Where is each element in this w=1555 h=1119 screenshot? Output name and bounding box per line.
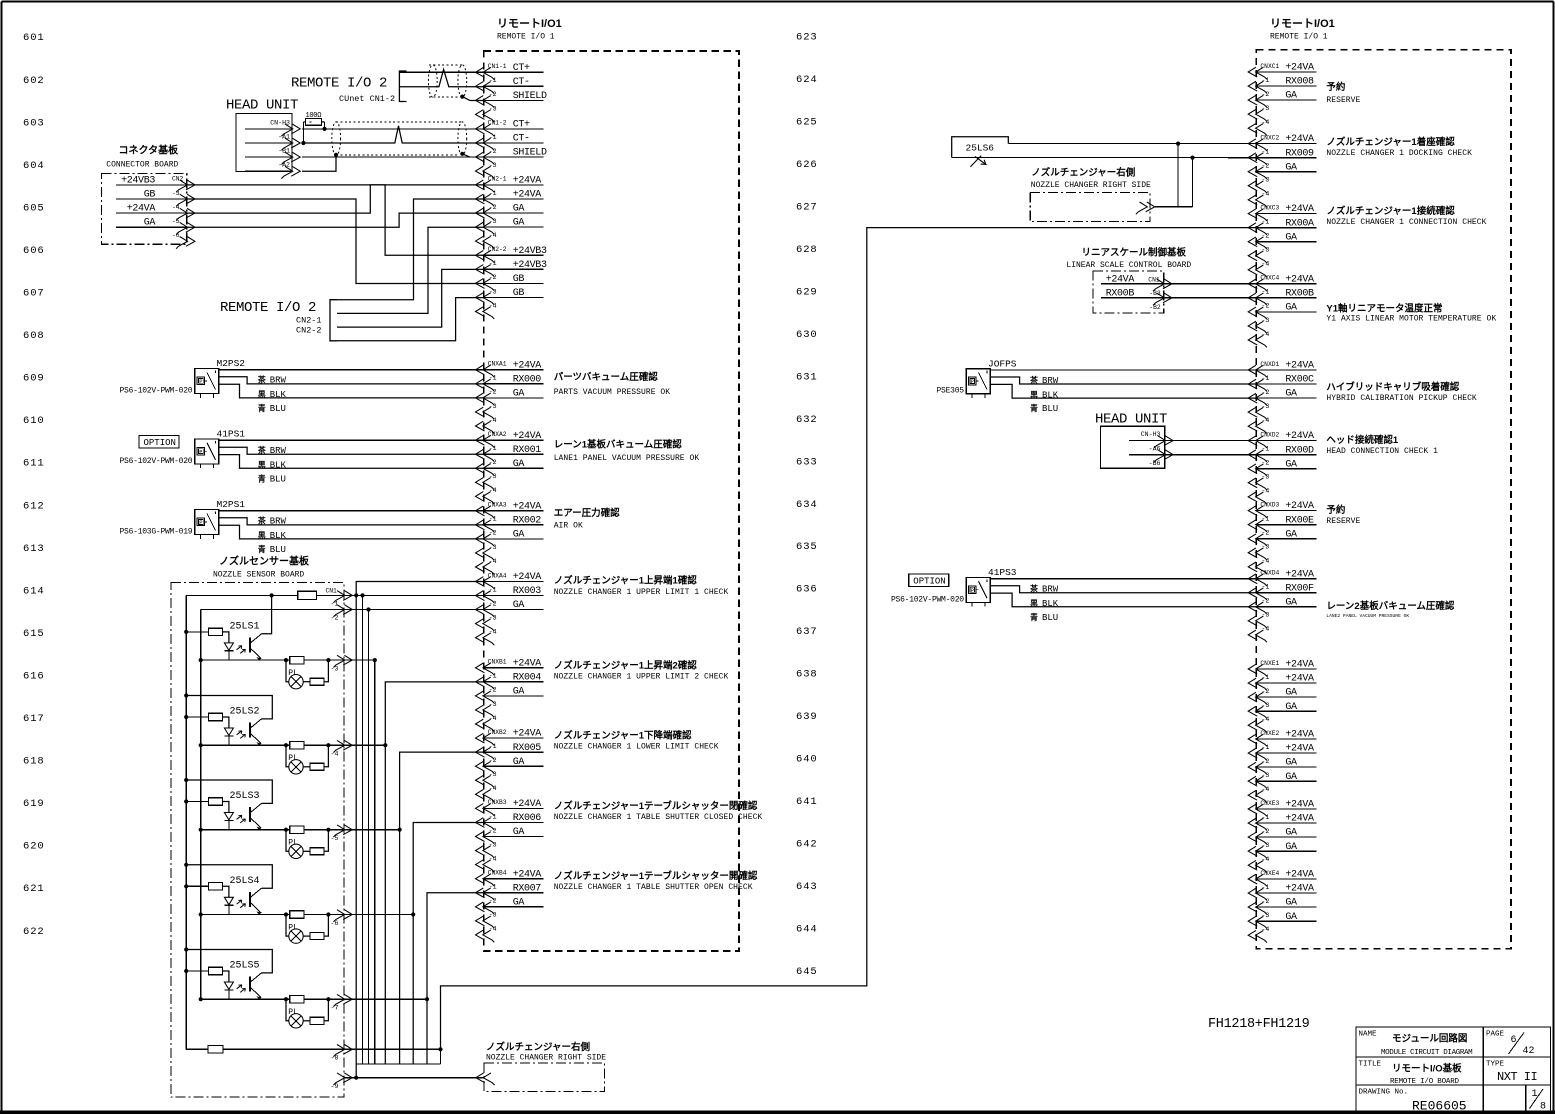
svg-text:NOZZLE SENSOR BOARD: NOZZLE SENSOR BOARD	[213, 571, 304, 580]
svg-text:-2: -2	[1261, 758, 1269, 765]
phototransistor 25LS1	[249, 638, 251, 653]
svg-text:606: 606	[23, 245, 45, 257]
svg-text:CNXB3: CNXB3	[488, 799, 507, 806]
svg-text:+24VA: +24VA	[1285, 361, 1314, 372]
svg-text:BRW: BRW	[1042, 376, 1059, 386]
bracket REMOTE I/O 2 (CN2-1 CN2-2)	[330, 300, 337, 341]
wire -9 to nozzle changer right side	[344, 1077, 484, 1079]
svg-text:PS6-102V-PWM-020: PS6-102V-PWM-020	[891, 595, 964, 604]
svg-text:-2: -2	[1261, 828, 1269, 835]
svg-text:635: 635	[796, 541, 818, 553]
resistor series 25LS2	[290, 742, 304, 749]
svg-text:-B6: -B6	[1149, 460, 1161, 467]
wire linear scale RX00B	[1164, 297, 1257, 299]
svg-text:-1: -1	[1261, 77, 1269, 84]
svg-text:BRW: BRW	[270, 376, 287, 386]
svg-text:LINEAR SCALE CONTROL BOARD: LINEAR SCALE CONTROL BOARD	[1066, 261, 1191, 270]
svg-text:-2: -2	[1261, 688, 1269, 695]
svg-text:BLK: BLK	[270, 531, 287, 541]
svg-text:+24VA: +24VA	[513, 572, 542, 583]
connector CNXD2	[1248, 431, 1316, 504]
svg-text:REMOTE I/O 1: REMOTE I/O 1	[1270, 33, 1328, 42]
svg-text:RX004: RX004	[513, 672, 542, 683]
svg-text:GA: GA	[1285, 459, 1297, 470]
svg-text:621: 621	[23, 883, 45, 895]
svg-text:-2: -2	[331, 614, 339, 621]
svg-text:BLK: BLK	[270, 390, 287, 400]
svg-text:モジュール回路図: モジュール回路図	[1392, 1033, 1467, 1045]
svg-text:リニアスケール制御基板: リニアスケール制御基板	[1082, 247, 1187, 259]
svg-text:CNXC2: CNXC2	[1260, 134, 1279, 141]
svg-text:-1: -1	[1261, 744, 1269, 751]
resistor input 25LS2	[184, 715, 188, 719]
connector CNXD3	[1248, 501, 1316, 574]
svg-text:RE06605: RE06605	[1412, 1099, 1467, 1114]
border frame	[2, 0, 1554, 2]
svg-text:RX005: RX005	[513, 743, 542, 754]
connector CNXA4	[476, 572, 544, 645]
svg-text:+24VA: +24VA	[513, 501, 542, 512]
light arrows 25LS3	[237, 815, 246, 823]
svg-text:-4: -4	[1261, 119, 1269, 126]
wire bracket to CN2-1 pin1	[337, 199, 484, 300]
wire sensor BRW to RX	[219, 447, 484, 454]
svg-text:ハイブリッドキャリブ吸着確認: ハイブリッドキャリブ吸着確認	[1326, 381, 1459, 393]
svg-text:CNXB1: CNXB1	[488, 659, 507, 666]
remote I/O 1 board box (left)	[484, 51, 739, 951]
svg-text:NOZZLE CHANGER 1 CONNECTION CH: NOZZLE CHANGER 1 CONNECTION CHECK	[1326, 218, 1486, 227]
svg-text:-4: -4	[489, 232, 497, 239]
svg-text:-1: -1	[1261, 674, 1269, 681]
svg-text:CNXA4: CNXA4	[488, 572, 507, 579]
svg-text:NOZZLE CHANGER 1 LOWER LIMIT C: NOZZLE CHANGER 1 LOWER LIMIT CHECK	[554, 742, 719, 751]
svg-text:GA: GA	[513, 897, 525, 908]
svg-text:CNXE3: CNXE3	[1260, 800, 1279, 807]
svg-text:GA: GA	[1285, 702, 1297, 713]
svg-text:NXT II: NXT II	[1497, 1070, 1537, 1084]
svg-text:GA: GA	[1285, 232, 1297, 243]
svg-text:GA: GA	[1285, 772, 1297, 783]
svg-text:-1: -1	[1261, 375, 1269, 382]
svg-text:REMOTE I/O 1: REMOTE I/O 1	[497, 33, 555, 42]
nozzle changer right side box (bottom)	[484, 1063, 605, 1092]
svg-text:RX00A: RX00A	[1285, 218, 1314, 229]
LED 25LS5	[224, 982, 233, 989]
svg-text:ヘッド接続確認1: ヘッド接続確認1	[1326, 434, 1399, 446]
svg-text:25LS3: 25LS3	[230, 791, 260, 802]
svg-text:+24VA: +24VA	[513, 360, 542, 371]
connector CNXC4	[1248, 274, 1316, 347]
svg-text:予約: 予約	[1326, 81, 1346, 93]
svg-text:+24VA: +24VA	[1285, 660, 1314, 671]
svg-text:CT+: CT+	[513, 120, 530, 131]
svg-text:-2: -2	[489, 827, 497, 834]
svg-text:RX001: RX001	[513, 445, 542, 456]
svg-text:-1: -1	[1261, 445, 1269, 452]
svg-text:GA: GA	[513, 530, 525, 541]
svg-text:-2: -2	[489, 459, 497, 466]
connector CNXA3	[476, 501, 544, 574]
svg-text:PARTS VACUUM PRESSURE OK: PARTS VACUUM PRESSURE OK	[554, 388, 671, 397]
svg-text:GA: GA	[1285, 828, 1297, 839]
svg-text:BLK: BLK	[270, 461, 287, 471]
svg-text:GA: GA	[1285, 389, 1297, 400]
svg-text:-3: -3	[1261, 317, 1269, 324]
svg-text:BLU: BLU	[270, 545, 286, 555]
pressure sensor M2PS1	[119, 499, 483, 555]
light arrows 25LS2	[237, 731, 246, 739]
pin -8 sensor board	[186, 1048, 344, 1050]
svg-text:HEAD CONNECTION CHECK 1: HEAD CONNECTION CHECK 1	[1326, 447, 1438, 456]
svg-text:-3: -3	[1261, 177, 1269, 184]
svg-text:41PS1: 41PS1	[217, 429, 246, 440]
svg-text:GA: GA	[1285, 303, 1297, 314]
svg-text:CT+: CT+	[513, 63, 530, 74]
svg-text:-2: -2	[1261, 460, 1269, 467]
svg-text:青: 青	[258, 544, 266, 554]
svg-text:CNXE2: CNXE2	[1260, 730, 1279, 737]
svg-text:-3: -3	[1261, 912, 1269, 919]
svg-text:-2: -2	[489, 757, 497, 764]
svg-text:MODULE CIRCUIT DIAGRAM: MODULE CIRCUIT DIAGRAM	[1381, 1049, 1473, 1057]
svg-text:628: 628	[796, 244, 818, 256]
svg-text:-1: -1	[489, 516, 497, 523]
connector CNXB4	[476, 869, 544, 942]
svg-text:GA: GA	[1285, 758, 1297, 769]
svg-text:HYBRID CALIBRATION PICKUP CHEC: HYBRID CALIBRATION PICKUP CHECK	[1326, 394, 1477, 403]
svg-text:-2: -2	[489, 148, 497, 155]
svg-text:M2PS2: M2PS2	[217, 358, 246, 369]
remote I/O 1 board box (right)	[1256, 50, 1511, 949]
svg-text:+24VA: +24VA	[513, 176, 542, 187]
svg-text:HEAD UNIT: HEAD UNIT	[1095, 412, 1167, 428]
connector CNXD4	[1248, 569, 1316, 642]
lamp PL 25LS3	[286, 830, 289, 852]
svg-text:CN2-1: CN2-1	[296, 315, 322, 325]
svg-text:BLK: BLK	[1042, 599, 1059, 609]
svg-text:予約: 予約	[1326, 504, 1346, 516]
svg-text:RESERVE: RESERVE	[1326, 96, 1360, 105]
svg-text:CNXA1: CNXA1	[488, 361, 507, 368]
wire sensor BLK to GA	[219, 455, 484, 469]
resistor input 25LS1	[184, 630, 188, 634]
row numbers left 601-622	[23, 32, 45, 938]
svg-text:茶: 茶	[1029, 375, 1039, 385]
svg-text:Y1軸リニアモータ温度正常: Y1軸リニアモータ温度正常	[1326, 303, 1442, 315]
svg-text:NOZZLE CHANGER 1 TABLE SHUTTER: NOZZLE CHANGER 1 TABLE SHUTTER OPEN CHEC…	[554, 883, 753, 892]
svg-text:-3: -3	[1261, 842, 1269, 849]
svg-text:P: P	[199, 379, 202, 385]
wire +24V rail (rail1)	[185, 595, 187, 1049]
svg-text:GA: GA	[513, 459, 525, 470]
svg-text:-1: -1	[489, 884, 497, 891]
opto sensor 25LS1	[184, 593, 352, 689]
title block	[1356, 1027, 1551, 1112]
svg-text:603: 603	[23, 117, 45, 129]
svg-text:614: 614	[23, 585, 45, 597]
svg-text:622: 622	[23, 926, 45, 938]
connector CN2-2	[476, 246, 547, 319]
svg-text:-4: -4	[489, 487, 497, 494]
wire sensor BRW to RX	[990, 586, 1256, 593]
svg-text:639: 639	[796, 711, 818, 723]
bracket REMOTE I/O 2 (CUnet CN1-2)	[399, 71, 406, 102]
svg-text:-4: -4	[489, 629, 497, 636]
svg-text:-3: -3	[1261, 702, 1269, 709]
svg-text:RX009: RX009	[1285, 148, 1314, 159]
svg-text:黒: 黒	[1030, 598, 1038, 608]
svg-text:レーン1基板バキューム圧確認: レーン1基板バキューム圧確認	[554, 439, 683, 451]
svg-text:42: 42	[1523, 1046, 1535, 1057]
wire RX003 line	[344, 594, 484, 596]
wire RX007 to -7 (bus v8)	[427, 893, 484, 1064]
svg-text:CONNECTOR BOARD: CONNECTOR BOARD	[106, 161, 178, 170]
node shield junction (CN1-2)	[460, 152, 464, 156]
svg-text:-1: -1	[1261, 884, 1269, 891]
svg-text:604: 604	[23, 160, 45, 172]
svg-text:-3: -3	[489, 614, 497, 621]
wire CT- (CN1-1) with twist hump	[399, 69, 483, 86]
connector CNXA1	[476, 360, 544, 433]
svg-text:-4: -4	[489, 785, 497, 792]
svg-text:-3: -3	[1261, 105, 1269, 112]
wire -8 riser to RX00A	[441, 228, 1257, 1050]
svg-text:レーン2基板バキューム圧確認: レーン2基板バキューム圧確認	[1326, 600, 1455, 612]
wire -B1 to SHIELD (CN1-2)	[302, 156, 484, 158]
svg-text:-4: -4	[1261, 331, 1269, 338]
svg-text:ノズルチェンジャー右側: ノズルチェンジャー右側	[486, 1041, 591, 1053]
svg-text:REMOTE I/O 2: REMOTE I/O 2	[291, 76, 387, 92]
svg-text:627: 627	[796, 202, 818, 214]
svg-text:青: 青	[258, 473, 266, 483]
svg-text:-3: -3	[489, 771, 497, 778]
resistor on CN1 line	[298, 591, 317, 599]
svg-text:-2: -2	[489, 91, 497, 98]
connector CNXE2	[1248, 730, 1316, 803]
svg-text:41PS3: 41PS3	[988, 567, 1017, 578]
wire sensor +24VA	[990, 369, 1256, 371]
svg-text:-3: -3	[1261, 403, 1269, 410]
svg-text:-5: -5	[172, 218, 180, 225]
wire output 25LS4	[199, 912, 203, 916]
opto sensor 25LS3	[184, 778, 352, 859]
svg-text:GA: GA	[513, 204, 525, 215]
svg-text:PL: PL	[288, 923, 298, 932]
svg-text:-2: -2	[489, 204, 497, 211]
wire output 25LS3	[199, 828, 203, 832]
svg-text:リモートI/O1: リモートI/O1	[1270, 17, 1335, 30]
svg-text:PL: PL	[288, 669, 298, 678]
svg-text:ノズルセンサー基板: ノズルセンサー基板	[219, 555, 310, 568]
svg-text:-2: -2	[1261, 598, 1269, 605]
resistor series 25LS3	[290, 826, 304, 833]
bus v3	[368, 610, 370, 1065]
svg-text:ノズルチェンジャー右側: ノズルチェンジャー右側	[1031, 167, 1136, 179]
svg-text:茶: 茶	[257, 516, 267, 526]
limit switch 25LS6	[952, 137, 1009, 158]
svg-text:CN2-2: CN2-2	[488, 246, 507, 253]
svg-text:-3: -3	[489, 403, 497, 410]
svg-text:-1: -1	[331, 600, 339, 607]
svg-text:青: 青	[1030, 612, 1038, 622]
svg-text:637: 637	[796, 626, 818, 638]
svg-text:-4: -4	[489, 558, 497, 565]
svg-text:-1: -1	[489, 673, 497, 680]
node shield junction (CN1-1)	[460, 95, 464, 99]
wire resistor left lead to CT-	[302, 122, 304, 143]
svg-text:CNXD4: CNXD4	[1260, 570, 1279, 577]
svg-text:+24VA: +24VA	[1285, 63, 1314, 74]
svg-text:643: 643	[796, 881, 818, 893]
svg-text:-1: -1	[489, 445, 497, 452]
svg-text:青: 青	[1030, 403, 1038, 413]
svg-text:626: 626	[796, 159, 818, 171]
wire -A1 to CT- (CN1-2) with twist hump	[302, 126, 484, 143]
resistor series 25LS5	[290, 996, 304, 1003]
svg-text:NOZZLE CHANGER 1 UPPER LIMIT 2: NOZZLE CHANGER 1 UPPER LIMIT 2 CHECK	[554, 673, 729, 682]
svg-text:-3: -3	[489, 912, 497, 919]
svg-text:ノズルチェンジャー1下降端確認: ノズルチェンジャー1下降端確認	[554, 729, 692, 741]
wire GB to CN2-2 pin2	[187, 199, 484, 284]
svg-text:608: 608	[23, 330, 45, 342]
svg-text:CN1-2: CN1-2	[488, 120, 507, 127]
svg-text:613: 613	[23, 543, 45, 555]
lamp PL 25LS5	[286, 999, 289, 1021]
svg-text:-2: -2	[489, 274, 497, 281]
svg-text:615: 615	[23, 628, 45, 640]
svg-text:630: 630	[796, 329, 818, 341]
svg-text:RX00C: RX00C	[1285, 375, 1314, 386]
connector CNXC3	[1248, 204, 1316, 277]
svg-text:-2: -2	[1261, 389, 1269, 396]
svg-text:NAME: NAME	[1359, 1031, 1378, 1039]
svg-text:+24VA: +24VA	[1285, 204, 1314, 215]
svg-text:640: 640	[796, 754, 818, 766]
wire +24VA to CN2-1 pin0	[187, 185, 484, 213]
svg-text:633: 633	[796, 456, 818, 468]
svg-text:NOZZLE CHANGER RIGHT SIDE: NOZZLE CHANGER RIGHT SIDE	[486, 1054, 606, 1063]
wire CT+ (CN1-1)	[399, 71, 483, 73]
svg-text:629: 629	[796, 286, 818, 298]
connector CN1-1	[476, 63, 547, 122]
svg-text:618: 618	[23, 756, 45, 768]
svg-text:611: 611	[23, 458, 45, 470]
svg-text:REMOTE I/O BOARD: REMOTE I/O BOARD	[1390, 1078, 1460, 1086]
svg-text:-3: -3	[489, 841, 497, 848]
resistor input 25LS3	[184, 799, 188, 803]
wire sensor +24VA	[219, 439, 484, 441]
svg-text:-1: -1	[1261, 218, 1269, 225]
svg-text:GB: GB	[513, 274, 525, 285]
svg-text:25LS2: 25LS2	[230, 707, 260, 718]
svg-text:RX00E: RX00E	[1285, 515, 1314, 526]
svg-text:ノズルチェンジャー1着座確認: ノズルチェンジャー1着座確認	[1326, 136, 1455, 148]
svg-text:リモートI/O1: リモートI/O1	[497, 17, 562, 30]
wire RX006 to -6 (bus v7)	[413, 822, 484, 1064]
nozzle sensor board box	[171, 582, 344, 1097]
wire to NC right side (v pair)	[1177, 144, 1179, 207]
light arrows 25LS1	[237, 646, 246, 654]
svg-text:ノズルチェンジャー1上昇端2確認: ノズルチェンジャー1上昇端2確認	[554, 659, 698, 671]
svg-text:-4: -4	[1261, 488, 1269, 495]
connector CNXA2	[476, 431, 544, 504]
svg-text:620: 620	[23, 841, 45, 853]
svg-text:ノズルチェンジャー1テーブルシャッター開確認: ノズルチェンジャー1テーブルシャッター開確認	[554, 870, 758, 882]
svg-text:+24VA: +24VA	[1285, 431, 1314, 442]
svg-text:CNXB2: CNXB2	[488, 729, 507, 736]
resistor series 25LS1	[290, 656, 304, 663]
svg-text:-3: -3	[1261, 247, 1269, 254]
svg-text:CUnet CN1-2: CUnet CN1-2	[339, 94, 395, 104]
svg-text:624: 624	[796, 74, 818, 86]
svg-text:25LS1: 25LS1	[230, 622, 260, 633]
svg-text:CN2-1: CN2-1	[488, 176, 507, 183]
connector board box	[102, 173, 187, 244]
opto sensor 25LS2	[184, 693, 352, 774]
svg-text:-2: -2	[1261, 303, 1269, 310]
svg-text:-2: -2	[1261, 163, 1269, 170]
svg-text:GA: GA	[513, 687, 525, 698]
svg-text:-2: -2	[489, 898, 497, 905]
svg-text:RX00B: RX00B	[1285, 288, 1314, 299]
svg-text:OPTION: OPTION	[144, 438, 176, 448]
svg-text:GA: GA	[1285, 529, 1297, 540]
svg-text:P: P	[199, 520, 202, 526]
svg-text:-1: -1	[489, 190, 497, 197]
svg-text:25LS5: 25LS5	[230, 961, 260, 972]
svg-text:ノズルチェンジャー1テーブルシャッター閉確認: ノズルチェンジャー1テーブルシャッター閉確認	[554, 800, 758, 812]
svg-text:610: 610	[23, 415, 45, 427]
svg-text:-3: -3	[1261, 474, 1269, 481]
svg-text:-B1: -B1	[278, 148, 290, 155]
phototransistor 25LS3	[249, 807, 251, 822]
svg-text:CNXC4: CNXC4	[1260, 275, 1279, 282]
svg-text:-3: -3	[172, 190, 180, 197]
svg-text:GA: GA	[513, 218, 525, 229]
wire -8 to RX00A riser	[344, 1048, 441, 1050]
resistor series 25LS4	[290, 911, 304, 918]
wire sensor +24VA	[990, 578, 1256, 580]
svg-text:-4: -4	[1261, 191, 1269, 198]
svg-text:RX00F: RX00F	[1285, 583, 1314, 594]
svg-text:GA: GA	[1285, 688, 1297, 699]
svg-text:CN1-1: CN1-1	[488, 63, 507, 70]
svg-text:645: 645	[796, 966, 818, 978]
svg-text:8: 8	[1540, 1102, 1546, 1113]
svg-text:NOZZLE CHANGER 1 TABLE SHUTTER: NOZZLE CHANGER 1 TABLE SHUTTER CLOSED CH…	[554, 813, 763, 822]
svg-text:RX000: RX000	[513, 374, 542, 385]
svg-text:+24VA: +24VA	[1285, 134, 1314, 145]
svg-text:黒: 黒	[258, 460, 266, 470]
svg-text:GA: GA	[513, 757, 525, 768]
wire shield to SHIELD pin (CN1-1)	[462, 97, 483, 101]
svg-text:CNXC1: CNXC1	[1260, 63, 1279, 70]
opto sensor 25LS4	[184, 863, 352, 944]
svg-text:NOZZLE CHANGER 1 DOCKING CHECK: NOZZLE CHANGER 1 DOCKING CHECK	[1326, 149, 1472, 158]
svg-text:-2: -2	[1261, 530, 1269, 537]
svg-text:JOFPS: JOFPS	[988, 358, 1017, 369]
svg-text:M2PS1: M2PS1	[217, 499, 246, 510]
svg-text:-4: -4	[1261, 558, 1269, 565]
svg-text:CNXD2: CNXD2	[1260, 431, 1279, 438]
svg-text:RX00D: RX00D	[1285, 445, 1314, 456]
svg-text:619: 619	[23, 798, 45, 810]
svg-text:-3: -3	[489, 544, 497, 551]
svg-text:RX007: RX007	[513, 883, 542, 894]
phototransistor 25LS4	[249, 892, 251, 907]
svg-text:DRAWING No.: DRAWING No.	[1359, 1089, 1409, 1097]
svg-text:BLK: BLK	[1042, 390, 1059, 400]
